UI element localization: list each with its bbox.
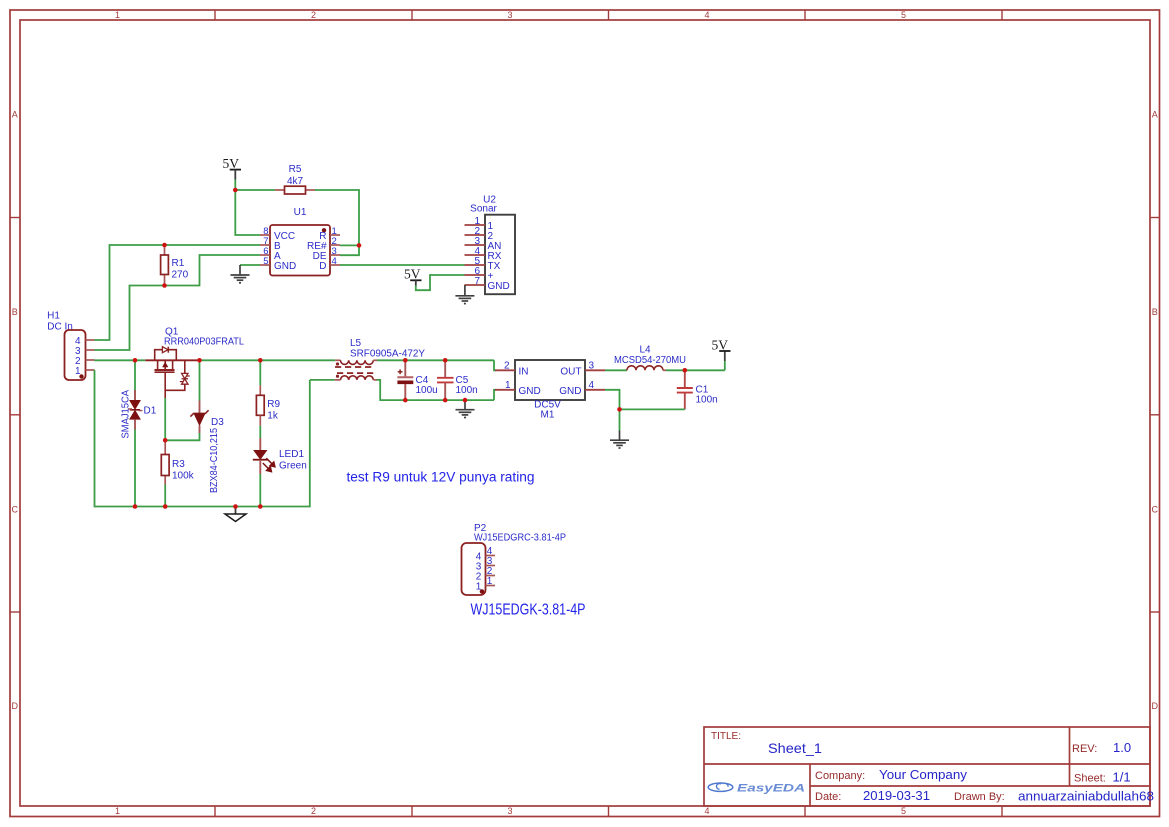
connector P2 bbox=[462, 523, 567, 595]
junction C5 top bbox=[443, 358, 448, 363]
wire 5V to U2 + bbox=[416, 275, 465, 290]
wire junction down to U1 pin 8 bbox=[235, 190, 260, 235]
diode D3 (zener) bbox=[190, 401, 224, 494]
resistor R5 bbox=[275, 164, 315, 194]
junction LED1 bottom rail bbox=[258, 504, 263, 509]
LED LED1 bbox=[253, 438, 307, 474]
ground (under C5) bbox=[456, 400, 475, 417]
svg-text:3: 3 bbox=[507, 806, 512, 816]
wire L5 bottom-left to rail bbox=[310, 379, 335, 381]
inductor L5 (common mode choke) bbox=[335, 338, 426, 380]
svg-text:1: 1 bbox=[115, 10, 120, 20]
wire H1 pin2 to Q1 bbox=[95, 359, 146, 361]
svg-text:R1: R1 bbox=[172, 258, 185, 269]
junction Q1 gate / R3 / D3 bbox=[163, 438, 168, 443]
svg-text:C: C bbox=[12, 505, 19, 515]
wire C4 to C5 bottom bbox=[405, 399, 494, 401]
capacitor C5 bbox=[437, 360, 478, 400]
svg-text:EasyEDA: EasyEDA bbox=[737, 783, 805, 795]
svg-text:RRR040P03FRATL: RRR040P03FRATL bbox=[164, 337, 244, 348]
wire down to ground bbox=[619, 409, 621, 430]
junction R3 bottom rail bbox=[163, 504, 168, 509]
junction Q1 drain / D3 / rail bbox=[197, 358, 202, 363]
power flag 5V (top left) bbox=[223, 156, 242, 180]
wire junction down to DE bbox=[340, 245, 359, 255]
wire C4 to C5 top bbox=[405, 359, 494, 361]
svg-text:WJ15EDGRC-3.81-4P: WJ15EDGRC-3.81-4P bbox=[474, 533, 566, 544]
svg-text:R5: R5 bbox=[289, 164, 302, 175]
svg-text:A: A bbox=[12, 110, 18, 120]
svg-text:100n: 100n bbox=[696, 395, 718, 406]
svg-text:5V: 5V bbox=[404, 267, 421, 282]
connector U2 Sonar bbox=[465, 195, 516, 295]
svg-text:1: 1 bbox=[487, 576, 493, 587]
ground (under U2) bbox=[455, 285, 474, 304]
junction R1 top bbox=[162, 243, 167, 248]
junction D1 top / VIN rail bbox=[133, 358, 138, 363]
svg-text:IN: IN bbox=[519, 367, 529, 378]
svg-text:Company:: Company: bbox=[815, 770, 865, 782]
junction R9 top / VIN rail bbox=[258, 358, 263, 363]
wire U1 pin7 B to H1 pin4 bbox=[95, 245, 261, 340]
junction C4 bottom bbox=[403, 398, 408, 403]
title block grid bbox=[704, 727, 1150, 806]
svg-text:H1: H1 bbox=[47, 311, 60, 322]
svg-text:LED1: LED1 bbox=[279, 449, 304, 460]
ground (under U1) bbox=[231, 265, 250, 283]
svg-text:Green: Green bbox=[279, 461, 307, 472]
svg-text:GND: GND bbox=[519, 386, 541, 397]
junction R1 bottom / net A bbox=[162, 283, 167, 288]
wire R9 to LED1 bbox=[259, 426, 261, 438]
svg-text:TITLE:: TITLE: bbox=[711, 731, 741, 742]
svg-text:Sheet:: Sheet: bbox=[1074, 773, 1106, 785]
svg-text:D: D bbox=[319, 261, 326, 272]
svg-text:REV:: REV: bbox=[1072, 743, 1097, 755]
svg-text:B: B bbox=[12, 307, 18, 317]
wire 5V to junction bbox=[234, 180, 236, 191]
svg-text:1: 1 bbox=[75, 366, 81, 377]
wire L5 top-right to C4 bbox=[377, 359, 405, 361]
wire to M1 IN bbox=[494, 360, 496, 370]
svg-text:Date:: Date: bbox=[815, 791, 841, 803]
module M1 DC5V bbox=[495, 360, 605, 421]
svg-text:5: 5 bbox=[901, 806, 906, 816]
svg-text:270: 270 bbox=[172, 270, 189, 281]
svg-text:5: 5 bbox=[263, 256, 268, 267]
title block values bbox=[768, 740, 1154, 804]
svg-text:U1: U1 bbox=[294, 207, 307, 218]
wire LED1 to bottom rail bbox=[259, 474, 261, 507]
resistor R9 bbox=[256, 360, 280, 425]
wire RE# stub to junction bbox=[340, 244, 359, 246]
svg-text:D: D bbox=[1152, 701, 1159, 711]
svg-text:B: B bbox=[1152, 307, 1158, 317]
svg-text:Sonar: Sonar bbox=[470, 204, 497, 215]
svg-text:BZX84-C10,215: BZX84-C10,215 bbox=[209, 428, 220, 493]
svg-text:D3: D3 bbox=[211, 417, 224, 428]
capacitor C1 bbox=[677, 370, 718, 409]
svg-text:1: 1 bbox=[476, 582, 482, 593]
svg-text:3: 3 bbox=[589, 361, 595, 372]
svg-text:1k: 1k bbox=[267, 411, 279, 422]
svg-text:4: 4 bbox=[704, 10, 709, 20]
wire gate node to D3 bottom bbox=[165, 433, 199, 440]
wire Q1 gate down to R3/D3 node bbox=[164, 398, 166, 440]
svg-text:D1: D1 bbox=[144, 406, 157, 417]
wire M1 OUT to L4 bbox=[605, 369, 627, 371]
wire L5 bottom-right to C4 bottom bbox=[377, 380, 406, 400]
svg-text:L5: L5 bbox=[350, 338, 362, 349]
junction D1 bottom rail bbox=[133, 504, 138, 509]
svg-text:R3: R3 bbox=[172, 459, 185, 470]
svg-text:L4: L4 bbox=[639, 345, 651, 356]
svg-text:R9: R9 bbox=[267, 399, 280, 410]
svg-text:GND: GND bbox=[274, 261, 296, 272]
svg-text:4: 4 bbox=[332, 256, 337, 267]
svg-text:1.0: 1.0 bbox=[1113, 740, 1131, 755]
wire R5 to RE#/DE bbox=[315, 190, 359, 245]
junction ground node under C5 bbox=[463, 398, 468, 403]
junction C1 bottom / M1 GND bbox=[617, 407, 622, 412]
svg-text:2: 2 bbox=[311, 10, 316, 20]
svg-text:2019-03-31: 2019-03-31 bbox=[863, 788, 930, 803]
wire rail down to D3 top bbox=[199, 360, 201, 400]
svg-text:2: 2 bbox=[311, 806, 316, 816]
svg-text:100u: 100u bbox=[416, 385, 438, 396]
svg-text:5: 5 bbox=[901, 10, 906, 20]
junction R5/RE#/DE bbox=[357, 243, 362, 248]
svg-text:2: 2 bbox=[504, 361, 510, 372]
svg-text:Sheet_1: Sheet_1 bbox=[768, 740, 822, 756]
inductor L4 bbox=[614, 345, 686, 371]
transistor Q1 bbox=[145, 327, 244, 391]
wire Q1 to L5 bbox=[200, 359, 336, 361]
title block labels bbox=[711, 731, 1106, 803]
svg-text:3: 3 bbox=[507, 10, 512, 20]
junction C5 bottom bbox=[443, 398, 448, 403]
wire U1 pin6 A to H1 pin3 via R1 bottom bbox=[95, 255, 261, 350]
svg-text:4: 4 bbox=[704, 806, 709, 816]
svg-text:D: D bbox=[12, 701, 19, 711]
svg-text:test R9 untuk 12V punya rating: test R9 untuk 12V punya rating bbox=[347, 470, 535, 485]
svg-text:5V: 5V bbox=[712, 338, 729, 353]
svg-text:C: C bbox=[1152, 505, 1159, 515]
svg-text:1/1: 1/1 bbox=[1113, 770, 1131, 785]
wire to M1 GND left bbox=[494, 390, 496, 400]
svg-text:WJ15EDGK-3.81-4P: WJ15EDGK-3.81-4P bbox=[471, 602, 586, 619]
svg-text:GND: GND bbox=[559, 386, 581, 397]
wire U1 pin5 to ground bbox=[240, 264, 260, 266]
svg-text:100n: 100n bbox=[456, 385, 478, 396]
resistor R1 bbox=[161, 245, 189, 286]
op-amp U1 bbox=[260, 207, 340, 276]
wire U1 D to U2 TX bbox=[340, 264, 465, 266]
svg-text:SRF0905A-472Y: SRF0905A-472Y bbox=[350, 349, 425, 360]
svg-text:GND: GND bbox=[488, 281, 510, 292]
power flag 5V (mid) bbox=[404, 267, 422, 286]
ground (under M1) bbox=[610, 431, 629, 449]
wire L4 to 5V bbox=[666, 369, 725, 371]
EasyEDA logo bbox=[708, 783, 805, 795]
svg-text:Drawn By:: Drawn By: bbox=[954, 791, 1005, 803]
capacitor C4 (polarized) bbox=[397, 360, 437, 400]
junction 5V/R5/U1-VCC bbox=[233, 188, 238, 193]
svg-text:4: 4 bbox=[589, 380, 595, 391]
junction ground stem rail bbox=[233, 504, 238, 509]
wire junction to R5 bbox=[235, 189, 275, 191]
diode D1 (TVS) bbox=[121, 360, 157, 506]
svg-text:100k: 100k bbox=[172, 471, 195, 482]
junction C1 top / 5V out bbox=[683, 368, 688, 373]
resistor R3 bbox=[161, 440, 194, 506]
svg-text:SMAJ15CA: SMAJ15CA bbox=[121, 390, 132, 439]
svg-text:Your Company: Your Company bbox=[879, 767, 968, 782]
power flag 5V (right) bbox=[712, 338, 731, 371]
svg-text:1: 1 bbox=[505, 380, 511, 391]
svg-text:OUT: OUT bbox=[560, 367, 581, 378]
svg-text:1: 1 bbox=[115, 806, 120, 816]
wire H1 pin1 down to bottom rail bbox=[95, 370, 310, 507]
svg-text:4k7: 4k7 bbox=[287, 176, 304, 187]
wire M1 GND right to C1 bottom bbox=[605, 390, 685, 410]
ground (bottom rail, triangle) bbox=[225, 507, 246, 522]
connector H1 bbox=[47, 311, 94, 381]
svg-text:M1: M1 bbox=[541, 410, 555, 421]
svg-text:MCSD54-270MU: MCSD54-270MU bbox=[614, 355, 686, 366]
svg-text:A: A bbox=[1152, 110, 1158, 120]
svg-text:annuarzainiabdullah68: annuarzainiabdullah68 bbox=[1018, 789, 1154, 804]
junction C4 top bbox=[403, 358, 408, 363]
svg-text:7: 7 bbox=[474, 276, 480, 287]
